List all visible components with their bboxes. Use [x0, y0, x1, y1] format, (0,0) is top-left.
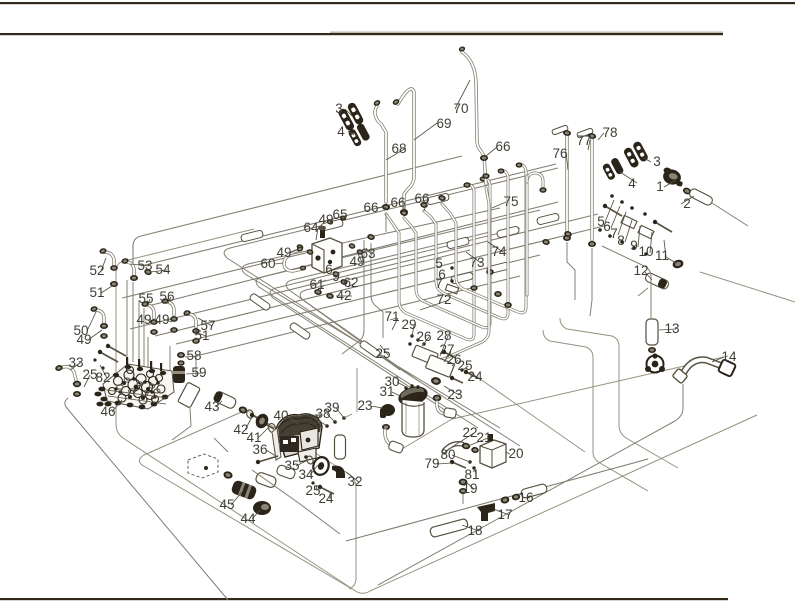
- svg-text:24: 24: [318, 491, 334, 506]
- screw 10: [655, 222, 672, 232]
- hose 14 end fitting: [718, 359, 736, 377]
- svg-text:82: 82: [95, 370, 110, 385]
- filter neck band: [402, 403, 424, 406]
- nut under 23a: [382, 424, 390, 430]
- part 11 coil fitting: [672, 259, 685, 270]
- fitting 43: [213, 390, 238, 409]
- manifold left port: [306, 248, 314, 255]
- screw 42b: [252, 415, 268, 424]
- screw 79: [452, 462, 466, 468]
- nut 51a2: [110, 281, 118, 287]
- pipe run b5: [155, 225, 608, 336]
- svg-text:13: 13: [664, 321, 679, 336]
- svg-text:73: 73: [469, 255, 484, 270]
- nut 21b: [471, 446, 480, 453]
- hose 23b end: [443, 408, 456, 419]
- pipe 70 top fitting: [458, 46, 466, 53]
- fitting 19: [459, 479, 468, 486]
- pipe run b2: [122, 245, 338, 298]
- svg-text:2: 2: [683, 196, 691, 211]
- hose 60 top nut: [296, 246, 304, 253]
- pump 40: [272, 414, 322, 462]
- nut 21: [461, 442, 470, 450]
- pipe run b4: [130, 214, 598, 329]
- washer 81: [472, 466, 475, 469]
- pipe 78 top fitting: [587, 133, 596, 140]
- svg-text:46: 46: [100, 404, 115, 419]
- pipe loop 72: [404, 178, 490, 328]
- svg-text:42: 42: [336, 288, 351, 303]
- svg-text:26: 26: [416, 329, 431, 344]
- svg-text:25: 25: [375, 346, 390, 361]
- hose 14 down line: [378, 384, 683, 585]
- tube 16: [520, 483, 547, 498]
- svg-text:21: 21: [476, 430, 491, 445]
- pipe loop 71: [386, 184, 474, 340]
- svg-text:55: 55: [138, 291, 153, 306]
- svg-text:18: 18: [467, 523, 482, 538]
- clamp 3 left: [337, 101, 365, 131]
- part 12 tail: [638, 288, 648, 296]
- tee 17: [477, 503, 495, 521]
- screw 24a: [320, 487, 334, 494]
- drop line 6: [169, 346, 171, 372]
- clamp 3 right: [622, 140, 650, 169]
- nut on leg 72: [486, 269, 494, 275]
- svg-text:61: 61: [309, 277, 324, 292]
- washer 82: [101, 366, 104, 369]
- panel right inner L: [560, 318, 678, 468]
- tube right of 45: [255, 471, 278, 488]
- svg-text:68: 68: [391, 141, 406, 156]
- dashed box 47: [188, 454, 218, 478]
- flange 34: [311, 455, 331, 477]
- nut on leg 73: [504, 302, 512, 308]
- svg-text:49: 49: [349, 254, 364, 269]
- svg-text:45: 45: [219, 497, 234, 512]
- hook pipe k4: [270, 228, 520, 412]
- pipe 76 link: [526, 176, 529, 182]
- screw 42b2: [258, 420, 274, 429]
- pipe 70: [462, 52, 486, 184]
- pipe 68 lower stub: [385, 214, 387, 232]
- pipe high run: [133, 156, 462, 268]
- nut 49d2: [100, 333, 108, 339]
- fitting 66 row b: [382, 203, 391, 211]
- screw 82a: [100, 352, 118, 362]
- solenoid box 20: [480, 434, 506, 468]
- tube above 32: [335, 435, 346, 459]
- outer left descender: [65, 398, 228, 600]
- svg-text:51: 51: [89, 285, 104, 300]
- hose 60: [284, 250, 302, 271]
- svg-text:3: 3: [335, 101, 343, 116]
- cartridge 59: [173, 366, 185, 383]
- svg-text:49: 49: [76, 332, 91, 347]
- bracket plates 7 8: [621, 215, 637, 228]
- fitting 43 rings: [238, 405, 249, 414]
- svg-text:34: 34: [298, 467, 314, 482]
- svg-text:58: 58: [186, 348, 201, 363]
- nut 51b2: [192, 338, 200, 344]
- fitting 66 on pipe 68: [382, 204, 390, 210]
- hose 23a end: [388, 440, 404, 453]
- line 59 down join: [172, 408, 191, 440]
- svg-text:24: 24: [467, 369, 483, 384]
- svg-text:20: 20: [508, 446, 523, 461]
- part 13 tube: [646, 319, 658, 345]
- pipe 77 bottom fitting: [563, 235, 571, 241]
- svg-text:51: 51: [194, 328, 209, 343]
- svg-text:29: 29: [401, 317, 416, 332]
- panel inner left edge: [139, 410, 352, 589]
- svg-text:40: 40: [273, 408, 288, 423]
- hose 23a: [385, 430, 399, 449]
- nut 49d: [100, 323, 108, 329]
- elbow 57: [188, 314, 196, 327]
- manifold block 64: [312, 226, 342, 273]
- pipe 77 top fitting: [563, 130, 572, 137]
- svg-text:49: 49: [136, 312, 151, 327]
- svg-text:9: 9: [630, 238, 638, 253]
- svg-text:70: 70: [453, 101, 468, 116]
- nut 16a: [500, 496, 510, 504]
- pipe 69: [398, 89, 414, 208]
- pipe run b1: [141, 164, 556, 266]
- svg-text:79: 79: [424, 456, 439, 471]
- svg-text:19: 19: [462, 481, 477, 496]
- elbow 23a: [380, 404, 395, 418]
- part 13 lower nut: [648, 347, 656, 353]
- svg-text:66: 66: [495, 139, 510, 154]
- svg-text:80: 80: [440, 447, 455, 462]
- washer 5a col: [450, 266, 453, 269]
- pipe run b7: [200, 276, 520, 355]
- svg-text:39: 39: [324, 400, 339, 415]
- fitting 66 row e: [438, 194, 447, 202]
- svg-text:66: 66: [414, 191, 429, 206]
- svg-text:71: 71: [384, 309, 399, 324]
- hardware rake parts 5-10: [610, 194, 614, 198]
- fitting 42a: [326, 292, 334, 299]
- drop line 3: [138, 300, 140, 364]
- fitting near 45: [223, 470, 234, 479]
- stub 19 down: [462, 494, 464, 504]
- clip hardware below 7: [445, 284, 458, 294]
- pipe 69 top fitting: [392, 98, 401, 106]
- hook pipe k6: [300, 250, 470, 370]
- hose 14: [684, 360, 722, 372]
- pipe 78 tail: [590, 248, 592, 316]
- tube 18: [429, 518, 468, 537]
- pipe 77 top nipple: [552, 125, 569, 135]
- drop line 7: [195, 357, 197, 376]
- svg-text:12: 12: [633, 263, 648, 278]
- line to 45 cluster: [214, 438, 228, 452]
- bracket plates 26-28: [412, 345, 439, 365]
- elbow 53: [126, 262, 134, 276]
- pipe through 16 17 18: [346, 459, 648, 541]
- hose 22: [444, 444, 462, 451]
- cap 44: [253, 501, 271, 515]
- drop line 5: [147, 337, 149, 368]
- fitting 66 row a: [367, 233, 376, 241]
- pipe 68 top fitting: [373, 99, 382, 107]
- part 1 connector: [660, 167, 685, 188]
- tag plate below 59: [178, 382, 201, 408]
- svg-text:4: 4: [628, 176, 636, 191]
- screw 24b: [452, 378, 463, 383]
- line 63 drop: [371, 243, 383, 338]
- svg-text:56: 56: [159, 289, 174, 304]
- svg-text:59: 59: [191, 365, 206, 380]
- part 2 nut: [682, 186, 692, 195]
- fitting 61: [314, 288, 322, 295]
- washer 80: [468, 460, 471, 463]
- panel outline main: [116, 271, 757, 593]
- drop line 1: [126, 280, 128, 360]
- manifold lower port b: [340, 278, 349, 286]
- pipe loop 73: [424, 170, 508, 319]
- hook pipe k1: [224, 168, 558, 446]
- filter cap 31: [396, 383, 430, 409]
- nut on leg 71: [470, 285, 477, 291]
- svg-text:76: 76: [552, 146, 567, 161]
- screw 26b: [444, 352, 456, 358]
- elbow 56: [166, 302, 174, 315]
- washer 38: [333, 420, 337, 424]
- nut 49e: [150, 319, 158, 325]
- pipe 77 tail: [567, 242, 575, 300]
- svg-text:77: 77: [576, 133, 591, 148]
- hose 23b: [437, 402, 450, 414]
- svg-text:60: 60: [260, 256, 275, 271]
- top border line: [0, 2, 795, 4]
- washer 25d: [311, 481, 314, 484]
- pipe 78 top nipple: [577, 128, 594, 138]
- fitting 49 left of manifold: [296, 243, 304, 250]
- washer 39: [342, 416, 346, 420]
- bolt 36: [258, 456, 278, 462]
- nut 54: [143, 268, 152, 276]
- fitting 49 above manifold: [326, 219, 334, 226]
- clamp 4 right: [601, 157, 625, 181]
- fitting small on pipe 70: [482, 173, 489, 179]
- pipe 68: [375, 106, 386, 202]
- svg-text:8: 8: [617, 233, 625, 248]
- drop line 2: [132, 282, 134, 362]
- svg-text:54: 54: [155, 262, 171, 277]
- svg-text:28: 28: [436, 328, 451, 343]
- fitting 63 stub: [348, 242, 356, 249]
- loop 73 top fitting: [498, 168, 505, 173]
- coupling 42b: [253, 412, 270, 431]
- elbow fitting cluster a: [542, 238, 551, 246]
- line down to part 13: [602, 246, 651, 318]
- elbow fitting cluster b: [564, 230, 573, 238]
- panel right outer L: [543, 330, 648, 491]
- part 13 fitting cluster: [645, 353, 665, 372]
- pipe 75 end fitting: [539, 187, 546, 193]
- nut 49e2: [150, 329, 158, 335]
- long line filter to right corner: [402, 356, 728, 449]
- drop line 4: [143, 308, 145, 366]
- svg-text:32: 32: [347, 474, 362, 489]
- pipe 77: [565, 133, 568, 234]
- svg-text:43: 43: [204, 399, 219, 414]
- elbow 52: [104, 252, 114, 266]
- nut 25a2: [73, 391, 81, 397]
- washer 25c: [460, 368, 463, 371]
- nut 49f2: [170, 327, 178, 333]
- svg-text:66: 66: [390, 195, 405, 210]
- hose 14 clamp left: [672, 368, 688, 383]
- svg-text:75: 75: [503, 194, 518, 209]
- svg-text:52: 52: [89, 263, 104, 278]
- svg-text:7: 7: [435, 276, 443, 291]
- svg-text:72: 72: [436, 292, 451, 307]
- svg-text:78: 78: [602, 125, 617, 140]
- svg-text:69: 69: [436, 116, 451, 131]
- pipe 78: [590, 136, 593, 240]
- svg-text:10: 10: [638, 244, 653, 259]
- fitting 66 row c: [400, 209, 409, 217]
- fitting 65: [339, 215, 347, 222]
- svg-text:9: 9: [332, 269, 340, 284]
- nut 51b: [192, 328, 200, 334]
- elbow 50: [95, 310, 104, 323]
- hook pipe k3: [256, 210, 540, 428]
- valve block 46: [94, 357, 174, 409]
- panel inner vertical stub: [356, 368, 358, 412]
- nut 23b top: [430, 376, 441, 385]
- pipe 75 run: [432, 188, 489, 364]
- svg-text:17: 17: [497, 507, 512, 522]
- svg-text:4: 4: [337, 124, 345, 139]
- fitting 58: [177, 352, 185, 358]
- svg-text:81: 81: [464, 467, 479, 482]
- elbow 32: [332, 466, 345, 478]
- filter bolts 30: [404, 386, 407, 389]
- svg-text:65: 65: [332, 207, 347, 222]
- pipe 78 bottom fitting: [588, 241, 596, 247]
- nut 53: [130, 275, 138, 281]
- fitting 66 row d: [420, 201, 429, 209]
- svg-text:74: 74: [491, 244, 507, 259]
- loop 72 top fitting: [480, 176, 487, 181]
- svg-text:33: 33: [68, 355, 83, 370]
- svg-text:49: 49: [276, 245, 291, 260]
- ring: [246, 409, 255, 419]
- leader lines group: [345, 109, 352, 116]
- part 12 tube: [644, 272, 670, 290]
- part 2 tail line: [712, 203, 748, 226]
- line 25 down right: [470, 372, 585, 452]
- svg-text:49: 49: [318, 212, 333, 227]
- pipe run b3: [148, 202, 558, 306]
- stub 39: [344, 414, 352, 418]
- bottom border line: [0, 598, 728, 600]
- elbow 33: [60, 367, 76, 380]
- filter body: [402, 400, 424, 437]
- tube 44-45 link: [276, 464, 296, 480]
- nut 49f: [170, 316, 178, 322]
- svg-text:11: 11: [655, 248, 669, 263]
- svg-text:44: 44: [240, 511, 256, 526]
- svg-text:66: 66: [363, 200, 378, 215]
- elbow 55: [146, 305, 154, 318]
- svg-text:23: 23: [447, 387, 462, 402]
- svg-text:14: 14: [721, 349, 737, 364]
- screw 82b: [108, 346, 126, 356]
- svg-text:53: 53: [137, 258, 152, 273]
- ring 35: [306, 455, 314, 465]
- hook pipe k2: [242, 208, 500, 428]
- nut on leg 72b: [494, 291, 502, 297]
- svg-text:3: 3: [653, 154, 661, 169]
- svg-text:36: 36: [252, 442, 267, 457]
- nut 23b mid: [433, 395, 442, 402]
- line 45 down right: [252, 470, 340, 534]
- fitting 66 on pipe 70: [480, 155, 488, 161]
- clamp 4 left: [347, 122, 371, 147]
- svg-text:16: 16: [518, 490, 533, 505]
- ring 41: [267, 423, 277, 434]
- line left drop: [342, 240, 364, 354]
- hose 60 bottom nut: [300, 266, 306, 271]
- pipe 75 inverted U: [527, 173, 543, 295]
- screw 24c: [466, 372, 478, 378]
- svg-text:23: 23: [357, 398, 372, 413]
- strainer 45: [230, 479, 257, 500]
- panel inner right edge: [246, 410, 356, 589]
- second header line: [330, 32, 723, 33]
- right panel top edge: [700, 272, 795, 302]
- svg-text:64: 64: [303, 220, 319, 235]
- screw 9: [605, 206, 622, 216]
- manifold lower port a: [332, 270, 341, 278]
- fitting 66 on pipe 69: [400, 209, 408, 215]
- stub 61: [312, 280, 326, 286]
- svg-text:31: 31: [379, 384, 394, 399]
- nut 51a: [110, 265, 118, 271]
- svg-text:35: 35: [284, 458, 299, 473]
- loop 74 top fitting: [516, 162, 523, 167]
- sleeve tubes on runs: [249, 293, 271, 312]
- washer 37: [325, 424, 329, 428]
- nut 16b: [511, 493, 521, 501]
- washer 6a col: [450, 279, 453, 282]
- pipe loop 74: [442, 164, 526, 313]
- svg-text:22: 22: [462, 425, 477, 440]
- panel top edge hint: [116, 229, 254, 271]
- nut 25a: [73, 381, 81, 387]
- washer 25a: [93, 358, 96, 361]
- pipe run b6: [176, 255, 540, 344]
- hook pipe k5: [286, 232, 490, 382]
- loop 71 top fitting: [463, 182, 470, 188]
- fitting right of manifold: [356, 248, 364, 255]
- svg-text:1: 1: [656, 179, 664, 194]
- svg-text:49: 49: [154, 312, 169, 327]
